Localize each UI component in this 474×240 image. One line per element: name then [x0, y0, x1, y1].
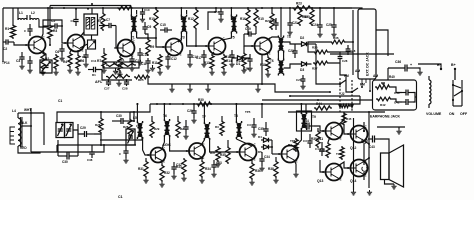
RED label — [20, 146, 27, 150]
wire Q8 base — [170, 135, 189, 151]
wire afc row — [102, 79, 132, 81]
wire diode join — [271, 140, 273, 154]
svg-text:+: + — [410, 63, 412, 67]
svg-text:R13: R13 — [204, 61, 210, 65]
IF transformer T7a — [163, 114, 170, 137]
EXT DC JACK label — [366, 52, 370, 76]
wire bottom left run — [57, 140, 59, 156]
wire Q10 base — [272, 153, 282, 155]
wire T2 top to bus — [130, 7, 132, 20]
diode D3 — [284, 62, 311, 72]
capacitor C42 — [315, 142, 325, 156]
svg-text:R3: R3 — [53, 29, 57, 33]
transistor Q1 — [25, 36, 45, 55]
wire speaker feed — [380, 139, 389, 153]
capacitor C30a — [112, 114, 130, 124]
svg-text:L1: L1 — [19, 11, 23, 15]
resistor switch area — [340, 104, 351, 107]
Q12 label — [350, 146, 356, 150]
wire C4 link — [43, 52, 46, 60]
svg-text:D4: D4 — [258, 135, 262, 139]
wire RED bottom — [18, 150, 57, 153]
FM label — [344, 74, 349, 78]
resistor R39 — [311, 128, 320, 148]
B+ terminal — [451, 63, 456, 80]
svg-text:R27: R27 — [312, 67, 318, 71]
capacitor C35 — [258, 122, 269, 136]
wire agc rail — [100, 137, 142, 140]
wire stage4-5 coupling — [187, 33, 209, 46]
svg-text:C13: C13 — [142, 53, 148, 57]
resistor R3 — [48, 8, 58, 40]
svg-text:R36: R36 — [333, 36, 339, 40]
node dots top bus — [51, 7, 263, 9]
capacitor Cx1 — [24, 24, 33, 36]
transistor Q7 — [147, 146, 166, 163]
svg-text:R15: R15 — [258, 17, 264, 21]
ground under R13 — [209, 70, 214, 75]
wire Q7 collector — [162, 137, 164, 149]
wire Q1 base — [14, 42, 29, 45]
svg-text:Q13: Q13 — [317, 179, 323, 183]
svg-text:C30: C30 — [62, 160, 68, 164]
svg-text:R11: R11 — [152, 61, 158, 65]
capacitor C29b — [73, 126, 94, 137]
capacitor C14 — [187, 50, 198, 67]
svg-text:C29: C29 — [187, 109, 193, 113]
svg-text:C30: C30 — [116, 114, 122, 118]
AM label 2 — [373, 74, 378, 78]
wire left out rail — [351, 118, 356, 195]
svg-text:AM: AM — [355, 69, 360, 73]
VOLUME label — [426, 112, 442, 116]
svg-text:C: C — [133, 40, 135, 44]
capacitor C28b — [329, 52, 353, 63]
resistor R45 — [342, 112, 352, 126]
resistor R1 — [5, 8, 16, 39]
svg-text:E: E — [254, 157, 256, 161]
wire stage3-4 coupling — [137, 38, 166, 47]
svg-text:E: E — [365, 173, 367, 177]
resistor R36 — [250, 159, 261, 180]
capacitor C27 — [104, 80, 111, 91]
svg-text:C38: C38 — [87, 158, 93, 162]
EARPHONE JACK label — [370, 115, 401, 119]
wire Q11-Q12 — [338, 112, 351, 134]
capacitor C41 — [394, 99, 413, 105]
svg-text:C3: C3 — [16, 59, 20, 63]
resistor R23 — [292, 2, 312, 11]
IF transformer T8 — [234, 114, 242, 139]
wire volume joins — [388, 68, 402, 102]
Q14 label — [350, 179, 356, 183]
transistor Q11 — [322, 122, 342, 141]
svg-text:R5: R5 — [97, 19, 101, 23]
ground under R36 — [249, 180, 254, 185]
capacitor C40 — [394, 90, 413, 96]
wire top bus branch left — [2, 8, 4, 62]
resistor R8 — [113, 54, 122, 72]
wire T2 bottom to Q3 collector — [130, 33, 131, 42]
capacitor C13 — [137, 48, 148, 65]
svg-text:R21: R21 — [119, 58, 125, 62]
svg-text:R31: R31 — [138, 167, 144, 171]
wire speaker bottom — [385, 180, 395, 185]
wire mid bus 4 — [150, 96, 360, 104]
svg-text:C9: C9 — [147, 25, 151, 29]
ground under R37 — [215, 162, 220, 167]
svg-text:TP5: TP5 — [245, 110, 251, 114]
wire L2 to Q1 — [39, 8, 48, 27]
switch contact a — [316, 44, 341, 85]
resistor R18 — [260, 53, 270, 72]
switch arm a — [340, 80, 346, 84]
svg-text:R7: R7 — [97, 59, 101, 63]
transistor Q4 — [162, 38, 182, 57]
resistor R16 — [240, 7, 250, 28]
svg-text:TH1: TH1 — [336, 152, 342, 156]
svg-text:T5: T5 — [287, 35, 291, 39]
C1 gang label — [58, 99, 62, 103]
ground under R4 — [67, 68, 72, 73]
transistor Q10 — [278, 145, 298, 164]
wire Q10 collector — [294, 128, 301, 148]
svg-text:R33: R33 — [176, 165, 182, 169]
antenna coil L4 — [18, 113, 21, 150]
ground C43 — [377, 127, 405, 134]
svg-text:R40: R40 — [389, 75, 395, 79]
capacitor C30b — [58, 153, 78, 165]
AGC label — [162, 142, 171, 147]
svg-text:R35: R35 — [220, 153, 226, 157]
wire R26 top — [308, 41, 354, 52]
svg-text:D2: D2 — [300, 36, 304, 40]
transistor Q5 — [205, 37, 225, 56]
transistor Q3 — [114, 39, 134, 58]
svg-text:R24: R24 — [116, 71, 122, 75]
capacitor C11 — [141, 58, 151, 68]
svg-text:E: E — [202, 156, 204, 160]
on-off switch — [452, 69, 463, 106]
wire R3 join — [49, 40, 51, 46]
transistor Q8 — [186, 142, 206, 160]
resistor R11 — [152, 54, 162, 70]
IF transformer T5 — [278, 35, 291, 53]
switch arrow b — [351, 105, 354, 109]
capacitor C43 — [368, 136, 380, 150]
svg-text:T6: T6 — [270, 59, 274, 63]
resistor R42 — [376, 97, 392, 107]
resistor R31 — [138, 158, 148, 178]
svg-text:C12: C12 — [171, 57, 177, 61]
svg-text:L4: L4 — [12, 109, 16, 113]
svg-text:C4: C4 — [315, 147, 319, 151]
WHT label — [24, 108, 31, 112]
ground under R17 — [241, 68, 246, 73]
wire Q9 base — [210, 138, 240, 152]
capacitor C36b — [247, 118, 257, 137]
ground under R31 — [143, 178, 148, 183]
resistor R13 — [204, 52, 214, 70]
volume assembly box — [373, 80, 417, 110]
IF transformer T3 — [181, 15, 187, 40]
wire gang common — [94, 134, 102, 146]
ground speaker — [391, 184, 396, 189]
ground under C10 — [129, 66, 134, 71]
svg-text:C43: C43 — [369, 145, 375, 149]
wire top bus second — [50, 6, 131, 10]
capacitor C28a — [122, 80, 129, 91]
svg-text:R17: R17 — [236, 59, 242, 63]
svg-text:R12: R12 — [188, 17, 194, 21]
wire T8 top — [235, 103, 237, 121]
BLK label — [21, 121, 28, 125]
svg-text:E: E — [180, 52, 182, 56]
coil L5 — [133, 116, 143, 139]
wire Q1 emitter — [41, 51, 43, 52]
svg-text:R28: R28 — [95, 123, 101, 127]
svg-text:R20: R20 — [304, 15, 310, 19]
wire bottom rail — [288, 104, 385, 113]
svg-text:R37: R37 — [210, 151, 216, 155]
resistor R37 — [210, 146, 220, 162]
capacitor C31b — [183, 120, 188, 139]
svg-text:C8: C8 — [82, 55, 86, 59]
resistor R38 — [268, 157, 278, 178]
capacitor C34 — [259, 152, 270, 171]
capacitor C38 — [303, 134, 313, 148]
svg-text:R3: R3 — [215, 125, 219, 129]
svg-text:Q11: Q11 — [317, 137, 323, 141]
svg-text:C14: C14 — [192, 55, 198, 59]
ground under R11 — [157, 70, 162, 75]
ground under C17 — [201, 62, 206, 67]
resistor R20 — [304, 7, 314, 26]
wire L4 right rail — [30, 108, 32, 152]
capacitor C10 bus — [140, 8, 150, 22]
wire L4 top WHT — [18, 112, 32, 114]
svg-text:C28: C28 — [342, 59, 348, 63]
svg-text:B+: B+ — [451, 63, 456, 67]
capacitor C23 — [296, 75, 306, 89]
ground under C20 — [247, 66, 252, 71]
tuning capacitor C1B — [65, 123, 74, 138]
svg-text:R4: R4 — [63, 60, 67, 64]
svg-text:L2: L2 — [31, 11, 35, 15]
svg-text:TP14: TP14 — [2, 61, 10, 65]
wire gang bus2 — [57, 144, 105, 152]
IF transformer T4 — [231, 15, 237, 40]
wire top supply bus — [3, 7, 352, 9]
capacitor D1 afc — [88, 59, 102, 80]
ground under R8 — [117, 72, 122, 77]
ground under R6 — [75, 70, 80, 75]
svg-text:FM: FM — [360, 83, 365, 87]
J2 label — [341, 92, 345, 96]
wire R10 join — [155, 30, 157, 39]
svg-text:C11: C11 — [91, 59, 97, 63]
svg-text:R28: R28 — [123, 125, 129, 129]
wire Q6 base — [244, 34, 255, 46]
wire Q7 base — [143, 137, 151, 155]
resistor R48 — [319, 137, 330, 158]
resistor R29 — [150, 116, 160, 138]
wire T3 to Q4 — [178, 33, 181, 42]
svg-text:D3: D3 — [300, 68, 304, 72]
resistor R44 — [314, 102, 332, 110]
wire C30 right — [130, 112, 134, 121]
capacitor C38c — [346, 45, 356, 55]
capacitor C5 — [43, 19, 62, 29]
ON OFF label — [449, 112, 468, 116]
resistor R22 — [265, 7, 274, 30]
wire T3 top to bus — [180, 7, 182, 20]
capacitor C3 — [16, 52, 25, 64]
resistor R28 — [123, 112, 132, 136]
svg-text:R1: R1 — [5, 27, 9, 31]
wire T3 secondary top — [186, 10, 188, 14]
C1 label — [118, 195, 123, 199]
capacitor C16 — [225, 50, 235, 67]
wire R16 join — [247, 28, 249, 35]
svg-text:E: E — [269, 51, 271, 55]
resistor R6 bus — [117, 6, 133, 10]
svg-text:C36: C36 — [395, 60, 401, 64]
ground output — [367, 190, 372, 195]
TP1 label — [2, 61, 10, 65]
svg-text:R45: R45 — [346, 117, 352, 121]
ground under R32 — [159, 182, 164, 187]
wire q10 emitter — [293, 160, 298, 177]
svg-text:AM: AM — [373, 74, 378, 78]
wire C30 up — [77, 124, 79, 156]
svg-text:E: E — [340, 177, 342, 181]
Q13 label — [317, 179, 323, 183]
wire BLK tap — [22, 125, 32, 127]
capacitor C10 — [129, 54, 141, 66]
wire T5 T6 link — [278, 51, 283, 61]
wire Q12 emitter out — [363, 140, 370, 145]
svg-text:EXT. DC JACK: EXT. DC JACK — [366, 52, 370, 76]
inductor L2 — [30, 11, 39, 24]
svg-text:R30: R30 — [198, 98, 204, 102]
svg-text:C22: C22 — [288, 49, 294, 53]
svg-text:C10: C10 — [144, 8, 150, 12]
IF transformer T9 — [297, 111, 317, 131]
diode D4 — [258, 135, 272, 142]
svg-text:R36: R36 — [255, 169, 261, 173]
svg-text:C1: C1 — [118, 195, 123, 199]
wire Q13 base — [320, 160, 326, 172]
wire Q5 bias — [208, 12, 216, 30]
resistor R40 volume pot — [375, 75, 395, 89]
oscillator trimmer box — [88, 35, 96, 49]
capacitor C22 — [288, 44, 298, 58]
capacitor C17b — [214, 8, 224, 22]
capacitor C6 — [55, 44, 65, 61]
switch arrow a — [339, 105, 342, 109]
svg-text:T9: T9 — [312, 115, 316, 119]
wire mid ground bus — [148, 55, 330, 92]
wire Q1 Q2 link — [43, 20, 63, 27]
svg-text:R23: R23 — [296, 2, 302, 6]
svg-text:R44: R44 — [316, 102, 322, 106]
svg-text:C2: C2 — [3, 47, 7, 51]
svg-text:C34: C34 — [264, 155, 270, 159]
TP5 label — [245, 110, 251, 114]
wire Q11 base — [314, 126, 326, 131]
svg-text:C21: C21 — [292, 21, 298, 25]
svg-text:R42: R42 — [380, 103, 386, 107]
AFC label — [95, 80, 103, 84]
wire R9 top — [145, 34, 149, 39]
svg-text:EARPHONE JACK: EARPHONE JACK — [370, 115, 401, 119]
transistor Q6 — [251, 37, 271, 56]
ground under R38 — [273, 178, 278, 183]
resistor R30 — [196, 98, 212, 106]
Q11 label — [317, 137, 323, 141]
resistor R6 — [76, 50, 85, 70]
resistor R36b — [330, 36, 346, 44]
wire Q9 collector — [236, 139, 252, 146]
wire output rail — [368, 112, 370, 188]
wire Q14 collector out — [363, 157, 370, 162]
resistor R33 — [176, 158, 186, 176]
ground under R34 — [199, 178, 204, 183]
svg-text:R9: R9 — [150, 45, 154, 49]
svg-text:C1: C1 — [58, 99, 62, 103]
FM label 2 — [360, 83, 365, 87]
svg-text:VOLUME: VOLUME — [426, 112, 442, 116]
svg-text:R16: R16 — [240, 17, 246, 21]
capacitor C29 — [187, 104, 197, 123]
wire gang bus — [57, 144, 136, 146]
svg-text:E: E — [340, 136, 342, 140]
antenna coil core — [21, 117, 22, 147]
wire Q2 collector — [80, 32, 84, 37]
wire det out — [261, 103, 263, 118]
wire T4 to Q5 collector — [222, 33, 231, 40]
AM label — [355, 69, 360, 73]
svg-text:R14: R14 — [226, 59, 232, 63]
svg-text:B: B — [114, 46, 116, 50]
wire T2 secondary — [136, 10, 138, 38]
ferrite bar — [10, 127, 15, 144]
resistor R4 — [63, 49, 72, 68]
resistor R27 — [312, 61, 329, 70]
svg-text:C3: C3 — [303, 139, 307, 143]
ground under R7 — [101, 68, 106, 73]
band switch dashed line 2 — [351, 80, 353, 112]
resistor R35b — [215, 116, 224, 136]
svg-text:R22: R22 — [265, 19, 271, 23]
svg-text:C29: C29 — [80, 126, 86, 130]
resistor R26 — [312, 46, 329, 54]
capacitor C15 — [160, 23, 172, 33]
wire C40 C41 right — [413, 93, 417, 103]
wire R15 down — [255, 28, 257, 34]
svg-text:OFF: OFF — [460, 112, 468, 116]
capacitor C8 — [82, 49, 89, 67]
svg-text:WHT: WHT — [24, 108, 31, 112]
resistor R2 — [41, 52, 50, 70]
capacitor C7 — [99, 18, 116, 28]
svg-text:R38: R38 — [268, 167, 274, 171]
oscillator coil T1 box — [84, 14, 103, 35]
speaker — [381, 145, 404, 187]
capacitor C32 — [171, 162, 182, 179]
node dot bus x48 — [47, 7, 49, 9]
